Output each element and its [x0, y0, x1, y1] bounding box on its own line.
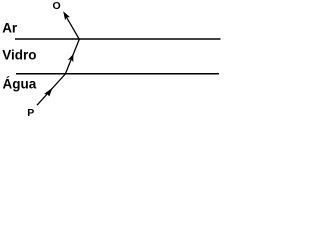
svg-text:Água: Água — [3, 76, 37, 91]
arrowhead on water ray — [44, 88, 53, 97]
arrowhead at O end of air ray — [63, 11, 70, 20]
interface line Vidro/Agua — [16, 73, 219, 75]
ray segment in glass (between interfaces) — [65, 39, 79, 74]
arrowhead on glass ray — [68, 54, 74, 62]
ray segment in air (toward O) — [64, 13, 79, 39]
ray segment in water (P to glass interface) — [37, 74, 65, 105]
svg-text:Vidro: Vidro — [2, 48, 36, 63]
interface line Ar/Vidro — [15, 38, 221, 40]
svg-text:O: O — [53, 0, 61, 12]
svg-text:Ar: Ar — [2, 21, 18, 36]
svg-text:P: P — [27, 107, 34, 118]
